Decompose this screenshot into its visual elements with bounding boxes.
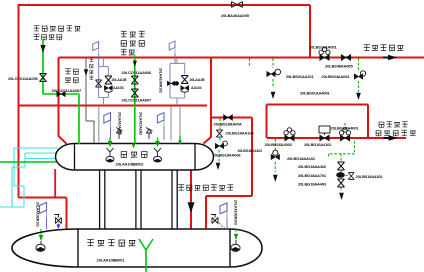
label: text 蒸汽联箱来 — [376, 130, 416, 136]
svg-text:20LAA10BR101: 20LAA10BR101 — [36, 202, 40, 227]
label: 20LAA10BB002 — [116, 162, 145, 167]
svg-text:20LBG1BA4001: 20LBG1BA4001 — [331, 126, 360, 131]
label: vertical 20LAA10A1B2 — [139, 112, 143, 135]
wire: drop x368 — [367, 105, 369, 139]
label: text 除氧器 — [121, 152, 148, 158]
label: text 暖气温 — [121, 31, 145, 37]
instrument flag above station B — [169, 41, 175, 63]
relief valve lower right — [146, 128, 153, 140]
label: text 暖风器疏水泵 — [34, 26, 81, 32]
relief valve lower left — [116, 128, 123, 140]
instrument flag lower left — [104, 113, 111, 138]
svg-text:20LBA40AA005: 20LBA40AA005 — [221, 13, 250, 18]
label: 20LBG16A4102 — [304, 142, 332, 147]
wire: riser x310 from top header — [309, 5, 311, 58]
valve 20LCC011AA007 bowtie — [57, 91, 66, 96]
valve 20LCC011AA006 gate — [40, 74, 47, 82]
arrow on green x43 — [40, 45, 45, 53]
arrow on red x191 — [187, 202, 194, 213]
wire: green dashed stub x249 — [249, 59, 251, 68]
label: AA104 — [191, 86, 202, 90]
label: 20LBG16A4002 — [265, 142, 293, 147]
valve station A bypass loop — [99, 58, 109, 105]
tank: deaerator 20LAA10BB002 — [56, 144, 214, 171]
valve 20LAA1BAA103 gate — [105, 76, 112, 84]
wire: cyan level line middle — [12, 153, 57, 207]
label: text 暖气 — [65, 69, 78, 75]
wire: red frame top header — [19, 4, 310, 6]
arrow green nozzle x110 — [108, 141, 112, 147]
sparger right feed — [234, 229, 238, 240]
wire: green Y drain below water tank — [139, 239, 153, 272]
label: 20LAA1B — [190, 78, 205, 82]
label: text 高压辅助 — [379, 122, 408, 128]
label: text 除氧器水箱 — [87, 240, 135, 247]
arrow green into deaerator x133 — [132, 144, 136, 149]
valve gate 20LBG18AA402 — [338, 162, 345, 170]
svg-text:20LBS10AA001: 20LBS10AA001 — [309, 45, 337, 50]
label: vertical 20LAA10BR102 — [159, 68, 163, 93]
sparger left feed — [39, 229, 43, 241]
valve 20LCC011AA007 mid gate — [131, 89, 138, 97]
wire: green jog y94 — [43, 94, 79, 144]
label: 20LBG04AA001 — [322, 74, 351, 79]
wire: green dashed drop x358 — [358, 59, 360, 93]
label: 20LBG1BA4001 — [331, 126, 360, 131]
wire: green stub x110 — [109, 138, 111, 147]
svg-text:20LBG18AA101: 20LBG18AA101 — [287, 156, 316, 161]
wire: green dashed drop x220 to dome — [219, 119, 220, 163]
sparger left — [36, 241, 45, 251]
wire: green dashed branch y175 — [346, 175, 348, 177]
label: AA103 — [113, 86, 124, 90]
svg-text:20LBG18A4103: 20LBG18A4103 — [238, 149, 263, 153]
svg-text:20LBG18AA104: 20LBG18AA104 — [226, 130, 255, 135]
wire: drop x267 — [266, 105, 268, 139]
valve ball 20LBG18AA701 — [336, 172, 345, 178]
valve gate 20LBS18A4102 — [348, 173, 354, 180]
wire: aux steam header y138 — [267, 137, 406, 139]
svg-text:20LBG18AA402: 20LBG18AA402 — [298, 164, 327, 169]
svg-text:20LCC011AA007: 20LCC011AA007 — [122, 98, 153, 103]
arrow into deaerator right dome — [216, 163, 221, 170]
label: text 出口管来 — [34, 34, 62, 40]
svg-text:20LBG18AA403: 20LBG18AA403 — [298, 181, 327, 186]
svg-text:20LAA10BB002: 20LAA10BB002 — [116, 162, 145, 167]
svg-text:20LAA10BR103: 20LAA10BR103 — [234, 200, 238, 225]
wire: red header y105 left — [19, 105, 208, 107]
valve 20LBG16A4002 motor-operated — [284, 128, 295, 141]
label: text 系统 — [65, 78, 78, 84]
label: 20LBA40AA005 — [221, 13, 250, 18]
wire: green dashed x345 above aux header — [344, 123, 346, 132]
svg-text:20LBG16A4102: 20LBG16A4102 — [304, 142, 332, 147]
valve station B arc-bowtie — [181, 85, 189, 92]
svg-text:20LBS18A4102: 20LBS18A4102 — [356, 174, 384, 179]
arrow on gray x86 — [84, 69, 88, 76]
label: 20LBG18AA403 — [298, 181, 327, 186]
label: 20LCC011AA007 — [52, 88, 83, 93]
svg-text:20LAA10BR102: 20LAA10BR102 — [159, 68, 163, 93]
arrow vent x341 — [339, 193, 344, 200]
valve 20LAA1BAA104 gate — [181, 76, 188, 84]
wire: green stub x157 — [157, 138, 159, 147]
valve 20LBA40AA005 on top header — [232, 2, 243, 8]
sparger right — [231, 240, 240, 251]
label: vertical 20LAA10BR103 — [234, 200, 238, 225]
svg-text:20LBG04AA001: 20LBG04AA001 — [322, 74, 351, 79]
spray nozzle left — [106, 148, 114, 162]
arrow vent x273 — [271, 92, 276, 99]
label: 20LBG18AA701 — [298, 173, 327, 178]
valve station A left gate — [95, 80, 101, 87]
valve 20LBS48AA005 — [341, 54, 351, 60]
label: 20LBG18AA402 — [298, 164, 327, 169]
label: 20LAA1B — [112, 78, 127, 82]
arrow vent x275 — [273, 175, 278, 182]
label: 20LCC011AA006 — [122, 70, 153, 75]
valve 20LBS10AA001 motor-operated — [319, 47, 330, 60]
wire: gray drop x98.8 lower — [98, 106, 100, 143]
label: 20LBG18AA004 — [214, 121, 243, 126]
valve station B bypass loop — [170, 58, 185, 105]
arrow vent x358 — [356, 93, 361, 100]
wire: drop x211 into deaerator right dome — [204, 58, 212, 144]
arrow on green x135 — [133, 61, 137, 67]
spray nozzle right — [154, 148, 162, 162]
valve gate 20LBG18AA403 — [338, 179, 345, 187]
label: text 四段抽汽来 — [364, 45, 404, 51]
label: 20LBS01AA4001 — [300, 91, 331, 96]
valve 20LBS01AA101 with positioner — [267, 69, 281, 77]
arrow green stub x180 — [178, 140, 182, 145]
wire: red frame bottom elbow to water tank — [19, 198, 67, 230]
valve station A arc-bowtie — [104, 85, 112, 92]
arrow: aux steam flow — [384, 135, 399, 140]
wire: cyan level line lower — [25, 158, 56, 160]
wire: gray drop x171 lower — [170, 106, 172, 141]
valve 20LBG18AA101 with positioner — [271, 150, 280, 160]
label: 20LBS01AA101 — [286, 74, 314, 79]
label: 20LBG18AA006 — [213, 152, 242, 157]
svg-text:20LAA1B: 20LAA1B — [112, 78, 127, 82]
label: vertical 20LAA10BR101 — [36, 202, 40, 227]
label: 20LBG18A4103 — [238, 149, 263, 153]
wire: red header y104 right — [267, 104, 369, 106]
label: 20LBS48AA005 — [325, 64, 353, 69]
svg-text:20LAA10A1B2: 20LAA10A1B2 — [139, 112, 143, 135]
wire: drop x252 — [251, 118, 253, 197]
wire: branch y117 — [211, 117, 252, 119]
label: text 水到除 — [121, 41, 145, 47]
wire: green dashed drop x273 — [272, 59, 274, 89]
wire: dome drain x55 — [54, 169, 56, 198]
svg-text:20LBS48AA005: 20LBS48AA005 — [325, 64, 353, 69]
svg-text:20LAA1B: 20LAA1B — [190, 78, 205, 82]
label: 20LBS10AA001 — [309, 45, 337, 50]
valve station B left bowtie with ball — [167, 81, 179, 86]
svg-text:20LBG18AA006: 20LBG18AA006 — [213, 152, 242, 157]
arrow: extraction steam flow — [383, 55, 398, 60]
label: 20LBS18A4102 — [356, 174, 384, 179]
label: 20LBG18AA101 — [287, 156, 316, 161]
svg-text:20LCC011AA006: 20LCC011AA006 — [122, 70, 153, 75]
valve 20LBG18AA004 — [224, 115, 233, 121]
wire: extraction steam header y57 — [59, 57, 424, 59]
wire: green drain pump line x43 — [42, 40, 44, 94]
tank: deaerator water tank 20LAA10BB001 — [12, 229, 262, 267]
instrument flag lower right — [157, 113, 164, 140]
wire: elbow y196 to x206 into water tank — [206, 196, 252, 229]
label: vertical pipe text x89 — [89, 58, 93, 80]
svg-text:20LAA10BB001: 20LAA10BB001 — [97, 258, 126, 263]
wire: deaerator to water tank red drop x191 — [190, 170, 192, 229]
wire: green heater drain main x135 — [134, 56, 136, 144]
svg-text:20LAA10A1B1: 20LAA10A1B1 — [118, 112, 122, 135]
wire: gray heating line x86 — [86, 58, 94, 144]
valve 20LBG16A4102 diaphragm — [319, 126, 330, 141]
wire: green stub x180 — [179, 136, 181, 144]
valve gate x220 — [216, 130, 222, 137]
wire: downcomer legs — [100, 170, 178, 229]
wire: red frame left edge — [18, 4, 20, 198]
valve 20LBG1BA4001 motor-operated — [339, 128, 350, 141]
wire: green dashed drop x275 vent — [274, 139, 276, 172]
svg-text:AA103: AA103 — [113, 86, 124, 90]
svg-text:20LBG16A4002: 20LBG16A4002 — [265, 142, 293, 147]
label: 20LAA10BB001 — [97, 258, 126, 263]
label: 20LCC011AA006 — [8, 76, 39, 81]
instrument flag water tank right — [220, 203, 227, 229]
instrument flag above station A — [93, 42, 99, 67]
wire: inner box left drop into deaerator dome — [59, 58, 67, 144]
wire: green line into dome y162 — [0, 161, 56, 163]
label: text 氧器 — [121, 49, 135, 55]
svg-text:20LBS01AA101: 20LBS01AA101 — [286, 74, 314, 79]
svg-text:20LCC011AA007: 20LCC011AA007 — [52, 88, 83, 93]
arrow green nozzle x157 — [155, 141, 159, 147]
label: 20LBG18AA104 — [226, 130, 255, 135]
svg-text:20LCC011AA006: 20LCC011AA006 — [8, 76, 39, 81]
label: vertical 20LAA10A1B1 — [118, 112, 122, 135]
svg-text:20LBG18AA004: 20LBG18AA004 — [214, 121, 243, 126]
instrument flag water tank left — [40, 203, 47, 230]
wire: cyan level line upper — [0, 148, 58, 207]
wire: gray drop x180 lower — [179, 106, 181, 136]
angle valve water tank left — [54, 215, 61, 230]
svg-text:20LBG18AA701: 20LBG18AA701 — [298, 173, 327, 178]
angle valve water tank right — [211, 215, 225, 229]
svg-text:20LBS01AA4001: 20LBS01AA4001 — [300, 91, 331, 96]
label: text 自连排扩容器来 — [178, 185, 233, 191]
label: 20LCC011AA007 — [122, 98, 153, 103]
svg-text:AA104: AA104 — [191, 86, 202, 90]
valve motor x220 — [215, 141, 227, 149]
valve 20LBG04AA001 with positioner — [354, 71, 365, 79]
valve 20LCC011AA006 mid gate — [131, 76, 138, 84]
wire: green dashed drop x354 to valve column — [329, 141, 355, 191]
